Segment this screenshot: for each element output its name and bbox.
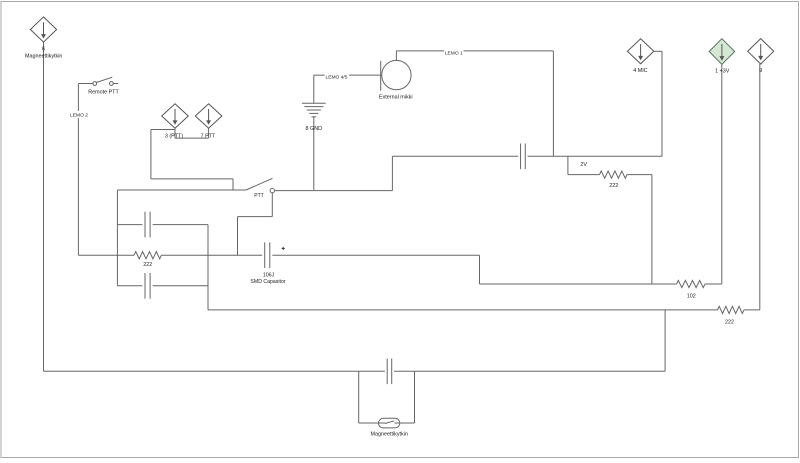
svg-text:Magneettikytkin: Magneettikytkin bbox=[370, 431, 407, 437]
svg-text:1 +3V: 1 +3V bbox=[715, 68, 730, 74]
svg-text:LEMO 2: LEMO 2 bbox=[70, 113, 88, 119]
svg-text:7 PTT: 7 PTT bbox=[201, 134, 216, 140]
svg-text:PTT: PTT bbox=[254, 193, 263, 199]
svg-text:222: 222 bbox=[143, 262, 152, 268]
svg-text:LEMO 4/5: LEMO 4/5 bbox=[325, 74, 347, 80]
svg-text:6: 6 bbox=[42, 47, 45, 53]
svg-text:222: 222 bbox=[725, 320, 734, 326]
svg-text:9: 9 bbox=[759, 68, 762, 74]
svg-text:Remote PTT: Remote PTT bbox=[88, 90, 119, 96]
svg-text:8 GND: 8 GND bbox=[306, 126, 323, 132]
svg-text:External mikki: External mikki bbox=[379, 94, 413, 100]
svg-text:3 (PTT): 3 (PTT) bbox=[165, 134, 183, 140]
svg-text:Magneettikytkin: Magneettikytkin bbox=[25, 54, 62, 60]
svg-text:106J: 106J bbox=[263, 272, 275, 278]
svg-text:4 MIC: 4 MIC bbox=[633, 68, 647, 74]
svg-text:LEMO 1: LEMO 1 bbox=[445, 51, 463, 57]
svg-text:SMD Capasitor: SMD Capasitor bbox=[250, 279, 285, 285]
svg-text:222: 222 bbox=[609, 183, 618, 189]
svg-text:2V: 2V bbox=[580, 162, 587, 168]
svg-text:102: 102 bbox=[687, 293, 696, 299]
